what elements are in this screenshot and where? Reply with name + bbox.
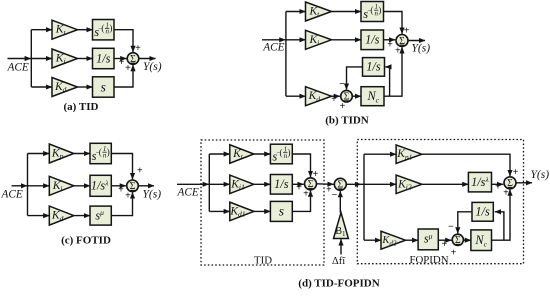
wire branch vertical (b) [285,12,287,97]
svg-text:(b) TIDN: (b) TIDN [325,115,369,127]
wire filter sum to Nc (b) [352,95,361,97]
svg-text:): ) [378,5,381,15]
block 1/s^lambda (d) [468,172,491,192]
wire to Kt1 (d) [209,153,230,155]
block Nc (b) [361,87,384,106]
block s^-(1/n) (d) [270,144,292,164]
svg-text:ACE: ACE [262,42,284,54]
svg-text:Y(s): Y(s) [143,189,162,201]
wire branch vertical TID (d) [208,154,210,211]
label s^-(1/n) (c) [92,145,110,163]
wire derivative to filter sum (d) [438,239,451,241]
TID summing junction (d) [305,178,317,190]
wire to Kt (b) [286,11,306,13]
wire to Ki (a) [31,58,52,60]
svg-text:(: ( [279,148,282,158]
gain Kd (b) [306,87,332,106]
svg-text:+: + [441,239,447,250]
svg-text:Y(s): Y(s) [531,169,550,181]
svg-text:+: + [331,94,337,105]
filter summing junction (d) [452,234,463,246]
wire branch vertical (a) [30,30,32,87]
filter summing junction (b) [341,90,353,102]
gain Kd1 (d) [229,202,253,221]
main summing junction (b) [396,35,408,47]
svg-text:−: − [448,221,454,232]
svg-text:Δfĩ: Δfĩ [332,256,346,267]
svg-text:Y(s): Y(s) [412,43,431,55]
svg-text:(: ( [370,5,373,15]
block s^-(1/n) (c) [90,143,111,163]
svg-text:+: + [340,101,346,112]
wire output (d) [516,182,532,184]
svg-text:+: + [303,188,309,199]
block 1/s (b) [361,30,384,50]
wire branch vertical FOPIDN (d) [363,154,365,240]
wire to Kd (b) [286,95,306,97]
wire Kt to tilt block (b) [332,11,362,13]
wire to Kd (a) [31,86,52,88]
svg-text:+: + [135,43,141,54]
gain Kt (a) [52,20,78,39]
wire to FOPIDN branch (d) [361,183,364,185]
wire Kd to derivative block (a) [78,86,93,88]
svg-text:(a) TID: (a) TID [64,101,99,113]
block 1/s (a) [93,48,115,68]
wire TID sum to disturbance sum (d) [317,183,334,186]
wire integrator to TID sum (d) [292,183,303,185]
wire output (b) [408,40,425,42]
dashed container FOPIDN (d) [357,140,523,264]
wire Ki to integrator (a) [78,58,93,60]
gain Kp (c) [49,144,74,163]
wire disturbance sum into FOPIDN (d) [346,183,361,185]
gain Kd (c) [49,206,74,225]
svg-text:s: s [279,204,284,219]
wire to Kt (a) [31,29,52,31]
svg-text:+: + [296,182,302,193]
gain Kt (b) [306,2,332,21]
disturbance summing junction (d) [334,178,346,190]
wire Kd to filter sum (b) [332,95,340,97]
wire ACE input (c) [12,185,28,187]
wire 1/s feedback to filter sum (d) [458,212,472,234]
svg-text:+: + [513,167,519,178]
wire filter sum to Nc (d) [463,239,471,241]
svg-text:TID: TID [254,255,272,267]
wire Kd2 to derivative (d) [406,239,419,241]
wire to Ki (b) [286,39,306,41]
final summing junction (d) [504,177,516,189]
wire derivative to TID sum (d) [292,191,310,212]
wire feedback tap to 1/s (d) [495,212,504,240]
svg-text:+: + [451,248,457,259]
wire integrator to sum (b) [384,39,396,41]
wire frequency deviation input (d) [340,239,342,254]
gain Kp1 (d) [396,145,422,164]
label s^-(1/n) (b) [363,3,381,21]
svg-text:): ) [107,147,110,157]
wire Nc to final sum (d) [492,190,511,241]
wire to Kd1 (d) [209,210,230,212]
svg-text:Y(s): Y(s) [143,61,162,73]
wire branch vertical (c) [27,154,29,216]
wire ACE input (a) [8,58,31,60]
wire tilt block to sum (b) [384,12,403,34]
wire integrator to sum (c) [111,185,126,187]
wire output (c) [138,185,154,187]
svg-text:+: + [119,57,125,68]
gain Ki (c) [49,176,74,195]
wire tilt block to TID sum (d) [292,154,310,177]
svg-text:+: + [312,169,318,180]
wire Kt to tilt block (a) [78,29,93,31]
wire Kp1 to final sum (d) [422,154,510,176]
svg-text:1/s: 1/s [366,60,381,74]
block 1/s feedback (d) [472,202,493,221]
block s (a) [93,77,115,97]
wire tilt block to sum (a) [114,30,133,52]
wire Ki to integrator (b) [332,39,362,41]
label s^-(1/n) (d) [272,146,290,164]
svg-text:ACE: ACE [177,187,199,199]
svg-text:ACE: ACE [1,189,23,201]
block Nc (d) [471,230,492,251]
svg-text:1/s: 1/s [365,33,380,47]
svg-text:+: + [137,166,143,177]
svg-text:s: s [101,79,106,94]
wire Ki2 to integrator (d) [422,183,469,185]
svg-text:(: ( [101,23,104,33]
block 1/s (d) [270,175,292,195]
svg-text:+: + [125,190,131,201]
wire Ki1 to integrator (d) [254,183,271,185]
svg-text:−: − [332,190,338,201]
gain Ki (b) [306,30,332,49]
wire tilt block to sum (c) [111,154,132,180]
wire 1/s feedback to filter sum (b) [347,67,363,90]
wire to Kd2 (d) [364,239,381,241]
wire to Ki2 (d) [364,183,396,185]
svg-text:FOPIDN: FOPIDN [410,254,449,266]
summing junction (c) [127,180,139,192]
svg-text:+: + [395,46,401,57]
svg-text:): ) [287,148,290,158]
wire to Ki (c) [28,185,50,187]
block 1/s feedback (b) [363,58,385,77]
wire integrator to sum (a) [114,58,126,60]
svg-text:−: − [339,79,345,90]
svg-text:(: ( [99,147,102,157]
block s (d) [270,201,292,221]
gain Kt (d) [230,145,254,164]
label s^-(1/n) (a) [94,21,112,39]
svg-text:+: + [118,184,124,195]
svg-text:): ) [109,23,112,33]
svg-text:1/s: 1/s [274,177,289,191]
wire Kt to tilt block (d) [254,153,271,155]
summing junction (a) [127,53,139,65]
svg-text:(c) FOTID: (c) FOTID [61,235,111,247]
wire Nc to main sum (b) [384,47,402,96]
wire B1 to disturbance sum (d) [339,191,341,213]
wire Kd to derivative block (c) [74,215,90,217]
svg-text:+: + [404,26,410,37]
wire integrator to final sum (d) [492,183,504,185]
wire ACE input (d) [177,183,209,185]
wire derivative to sum (a) [114,65,133,87]
wire Ki to integrator (c) [74,185,90,187]
wire output (a) [139,58,156,60]
svg-text:(d) TID-FOPIDN: (d) TID-FOPIDN [298,278,379,290]
block s^-(1/n) (a) [93,20,115,40]
wire to Ki1 (d) [209,183,230,185]
wire feedback tap to 1/s (b) [385,67,389,96]
wire to Kp1 (d) [364,153,396,155]
wire Kd1 to derivative (d) [254,210,271,212]
gain B1 frequency bias (d) [334,213,349,239]
svg-text:+: + [387,40,393,51]
wire Kp to tilt block (c) [74,153,90,155]
dashed container TID (d) [201,140,324,265]
svg-text:1/s: 1/s [475,205,490,219]
gain Ki (a) [52,49,78,68]
svg-text:ACE: ACE [7,62,29,74]
gain Kd2 (d) [381,231,406,249]
svg-text:+: + [125,63,131,74]
wire to Kd (c) [28,215,50,217]
wire ACE input (b) [262,39,285,41]
svg-text:+: + [503,187,509,198]
block s^-(1/n) (b) [361,2,384,22]
block s^mu (c) [90,206,111,225]
wire to Kp (c) [28,153,50,155]
gain Ki2 (d) [396,175,422,194]
gain Kd (a) [52,78,78,97]
wire derivative to sum (c) [111,192,132,215]
block s^mu (d) [418,229,438,250]
svg-text:1/s: 1/s [96,51,111,65]
svg-text:+: + [495,181,501,192]
block 1/s^lambda (c) [90,175,111,196]
gain Ki1 (d) [230,175,254,194]
